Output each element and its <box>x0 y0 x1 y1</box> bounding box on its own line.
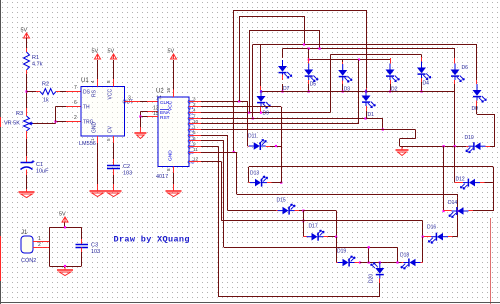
wire D16 left down to D18 right <box>422 237 424 263</box>
ground J1 <box>64 266 66 268</box>
svg-text:8: 8 <box>106 80 111 83</box>
op-amp U1 LM555 timer box <box>81 87 125 137</box>
wire riser D14/D16 rows <box>457 194 459 237</box>
wire R2 branch <box>27 91 37 93</box>
LED D9 <box>260 90 262 96</box>
ground C1 <box>26 189 28 192</box>
svg-text:4017: 4017 <box>156 174 168 180</box>
svg-text:GND: GND <box>167 150 173 161</box>
svg-text:D10: D10 <box>465 135 474 141</box>
svg-text:1: 1 <box>90 138 95 141</box>
wire Q7 line to bus 247 <box>201 140 224 142</box>
svg-text:VCC: VCC <box>108 89 114 100</box>
wire Q0 line <box>201 101 248 103</box>
svg-text:VR 5K: VR 5K <box>4 121 20 127</box>
U1 pin CV 5 wire <box>113 136 115 143</box>
svg-text:103: 103 <box>91 249 100 255</box>
svg-text:2: 2 <box>193 102 196 107</box>
svg-text:5V: 5V <box>168 49 175 55</box>
svg-text:D13: D13 <box>250 171 259 177</box>
LED D1 <box>365 90 367 96</box>
svg-text:R3: R3 <box>16 111 23 117</box>
LED D13 <box>249 182 250 184</box>
LED D6 <box>454 64 456 70</box>
svg-text:D16: D16 <box>427 225 436 231</box>
wire riser D12/D14 right ends <box>493 167 495 211</box>
wire D5 cathode to bus <box>308 84 310 92</box>
wire C2 to ground <box>113 175 115 184</box>
wire Q1 riser to D13 row <box>201 106 281 108</box>
node junction TH/TRG <box>54 120 56 122</box>
svg-text:7: 7 <box>193 113 196 118</box>
U2 pin VCC 16 to 5V <box>173 90 175 98</box>
ground C2 <box>113 188 115 191</box>
svg-text:103: 103 <box>123 171 132 177</box>
wire D12 connector from row146 <box>454 146 456 182</box>
power 5V P3 <box>111 54 117 59</box>
wire Q9 line to bus 193 <box>201 152 237 154</box>
svg-text:U1: U1 <box>81 78 89 84</box>
wire D5 anode drop <box>308 49 310 58</box>
wire CO bus drop to D16 row <box>422 221 424 237</box>
wire 5V to R1 <box>26 38 28 48</box>
counter U2 4017 box <box>158 97 189 167</box>
sheet border bottom-right red edge <box>490 218 492 304</box>
wire top loop H2 <box>239 16 241 101</box>
wire VR1 wiper to TRG <box>33 123 56 125</box>
wire Q0 column to D11 <box>247 101 249 146</box>
capacitor C2 103 <box>113 159 115 166</box>
wire D19/D18 row <box>360 262 402 264</box>
power 5V P5 <box>64 222 66 227</box>
wire D7 cathode to bus <box>282 84 284 92</box>
svg-text:GND: GND <box>92 122 98 134</box>
svg-text:3: 3 <box>128 96 131 102</box>
svg-text:16: 16 <box>166 87 171 93</box>
wire R2 to DS pin7 <box>60 91 66 93</box>
svg-text:7: 7 <box>74 85 77 91</box>
svg-text:6: 6 <box>74 100 77 106</box>
capacitor C3 103 <box>81 239 83 244</box>
ground U2 <box>173 188 175 191</box>
power 5V P2 <box>95 54 101 59</box>
svg-text:D19: D19 <box>337 249 346 255</box>
wire D2 cathode to bus <box>390 84 392 92</box>
svg-text:15: 15 <box>153 111 159 117</box>
sheet border left <box>0 0 2 304</box>
svg-text:3: 3 <box>193 96 196 101</box>
svg-text:C1: C1 <box>36 162 43 168</box>
wire C1 to ground <box>26 175 28 189</box>
wire Q3 line <box>201 118 383 120</box>
wire D15 junction down to D17 left <box>303 211 305 237</box>
svg-text:5: 5 <box>106 138 111 141</box>
wire D9 cathode to Q2 line <box>260 107 262 113</box>
wire CO line to bus 219 <box>201 161 222 163</box>
LED D0 <box>476 84 478 90</box>
ground middle row <box>402 146 404 148</box>
wire Q2 line to H6 riser <box>201 112 330 114</box>
LED D7 <box>282 60 284 66</box>
LED D5 <box>308 64 310 70</box>
svg-text:1k: 1k <box>43 98 49 104</box>
svg-text:4: 4 <box>90 80 95 83</box>
potentiometer R3 VR 5K <box>26 108 28 116</box>
LED D4 <box>421 62 423 68</box>
svg-text:10uF: 10uF <box>36 169 49 175</box>
wire steering line 167 <box>249 166 493 168</box>
svg-text:CV: CV <box>108 125 114 133</box>
svg-text:9: 9 <box>193 141 196 146</box>
svg-text:5: 5 <box>193 130 196 135</box>
svg-text:D1: D1 <box>368 112 375 118</box>
svg-text:D11: D11 <box>248 134 257 140</box>
wire Q3 drop to Q5 line <box>382 119 384 130</box>
LED D19 <box>336 262 337 264</box>
svg-text:D15: D15 <box>277 198 286 204</box>
wire D4 cathode to bus <box>421 82 423 92</box>
ground U1 GND <box>97 188 99 191</box>
svg-text:D17: D17 <box>309 224 318 230</box>
wire to ground U2 reset <box>140 117 142 128</box>
wire D14 connector from row146 <box>443 146 445 211</box>
wire D3 anode stub <box>342 60 344 64</box>
svg-text:8: 8 <box>166 168 171 171</box>
wire D11 cathode down to D13 row <box>281 146 283 183</box>
wire top loop H6 from Q2 <box>330 54 421 56</box>
svg-text:2: 2 <box>74 115 77 121</box>
wire cathode bus <box>261 91 455 93</box>
sheet border bottom <box>0 302 500 304</box>
J1 pin 1 <box>33 241 49 243</box>
svg-text:RS: RS <box>92 89 98 97</box>
svg-text:D6: D6 <box>462 65 469 71</box>
svg-text:2: 2 <box>38 242 41 248</box>
LED D3 <box>342 64 344 70</box>
wire D9 anode drop from H4 <box>260 45 262 88</box>
wire D6 anode drop <box>454 49 456 58</box>
wire Q5 line with jog to LED row <box>201 129 415 131</box>
ground U2 reset <box>139 130 141 133</box>
svg-text:RST: RST <box>160 115 170 121</box>
wire J1 loop <box>49 227 51 266</box>
LED D2 <box>389 64 391 70</box>
U2 pin ENA 13 RST 15 wires to ground <box>148 111 159 113</box>
svg-text:D14: D14 <box>448 200 457 206</box>
U1 pin VCC 8 to 5V <box>113 79 115 87</box>
svg-text:C2: C2 <box>123 164 130 170</box>
svg-text:4.7k: 4.7k <box>32 62 43 68</box>
capacitor C1 10uF <box>26 156 28 163</box>
svg-text:D0: D0 <box>472 106 479 112</box>
wire top loop H1 <box>233 10 235 152</box>
LED D10 <box>466 146 469 148</box>
wire VR1 to C1 <box>26 139 28 160</box>
wire Q4 riser to H7 <box>358 60 360 124</box>
svg-text:5V: 5V <box>92 49 99 55</box>
U1 pin GND 1 to ground <box>97 136 99 143</box>
svg-text:D18: D18 <box>400 253 409 259</box>
svg-text:D4: D4 <box>423 81 430 87</box>
LED D20 vertical <box>379 262 381 264</box>
wire D7 anode drop <box>282 49 284 58</box>
U1 pin RS 4 to 5V <box>97 79 99 87</box>
node junction ENA/RST <box>139 115 141 117</box>
svg-text:D20: D20 <box>369 274 375 283</box>
svg-text:4: 4 <box>193 108 196 113</box>
wire Q4 line <box>201 123 359 125</box>
LED D15 <box>276 210 278 212</box>
svg-text:TH: TH <box>83 105 90 111</box>
wire TH to junction <box>55 107 57 122</box>
svg-text:11: 11 <box>193 147 198 152</box>
J1 pin 2 <box>33 247 49 249</box>
svg-text:12: 12 <box>193 157 199 162</box>
U1 pin OUT 3 wire to U2 CLK 14 <box>125 101 141 103</box>
svg-text:D5: D5 <box>310 82 317 88</box>
wire D20 to bottom rail <box>379 283 381 297</box>
svg-text:CON2: CON2 <box>21 258 36 264</box>
resistor R2 1k <box>36 91 40 93</box>
power 5V P1 <box>24 33 30 38</box>
wire D6 cathode to bus and down to row146 <box>454 84 456 92</box>
wire top loop H7 from Q4 <box>309 59 390 61</box>
svg-text:R1: R1 <box>32 55 39 61</box>
wire D1 cathode to Q3 line <box>366 106 368 111</box>
wire D2 anode drop <box>390 60 392 62</box>
wire top loop H4 <box>253 44 477 46</box>
LED D16 row <box>423 236 431 238</box>
wire D17 junction down to D19 <box>336 237 338 263</box>
svg-text:J1: J1 <box>21 230 28 236</box>
LED D12 <box>455 182 463 184</box>
svg-text:6: 6 <box>193 136 196 141</box>
wire R1 to VR1 <box>26 74 28 108</box>
connector J1 CON2 <box>21 236 33 253</box>
wire D3 cathode to bus <box>342 84 344 92</box>
power 5V P4 <box>171 54 177 59</box>
node junction R1/R2 <box>25 90 27 92</box>
svg-text:DS: DS <box>83 90 91 96</box>
svg-text:C3: C3 <box>91 243 98 249</box>
svg-text:VCC: VCC <box>167 100 173 111</box>
wire D10 right to riser <box>490 146 495 148</box>
wire D4 anode drop <box>421 55 423 58</box>
svg-text:R2: R2 <box>42 82 49 88</box>
wire LED row 146 right piece <box>400 146 466 148</box>
wire Q8 line to bottom rail <box>201 146 219 148</box>
wire H4 drop to D0 <box>476 45 478 82</box>
wire D0 cathode to D10 riser <box>476 101 478 107</box>
svg-text:5V: 5V <box>21 28 28 34</box>
LED D11 <box>248 146 249 148</box>
wire Q7 bus drop to row <box>397 247 399 262</box>
svg-text:Draw by XQuang: Draw by XQuang <box>114 235 190 245</box>
LED D14 <box>444 210 452 212</box>
svg-text:U2: U2 <box>156 89 164 95</box>
wire D15 row to D17 right riser <box>303 210 336 212</box>
wire top loop H3 <box>249 30 251 113</box>
wire Q6 line to D15 <box>201 135 228 137</box>
LED D17 <box>303 236 306 238</box>
svg-text:1: 1 <box>193 125 196 130</box>
svg-text:D12: D12 <box>456 177 465 183</box>
LED D18 <box>402 262 404 264</box>
U2 pin GND 8 to ground <box>173 167 175 174</box>
svg-text:5V: 5V <box>59 212 66 218</box>
wire D1 anode stub <box>365 90 367 92</box>
wire top loop H5 <box>283 48 456 50</box>
svg-text:10: 10 <box>193 119 199 124</box>
sheet border left red segments <box>0 117 2 127</box>
svg-text:5V: 5V <box>108 49 115 55</box>
resistor R1 4.7k <box>26 48 28 52</box>
wire tie riser 368 <box>368 247 370 262</box>
svg-text:D9: D9 <box>263 111 270 117</box>
